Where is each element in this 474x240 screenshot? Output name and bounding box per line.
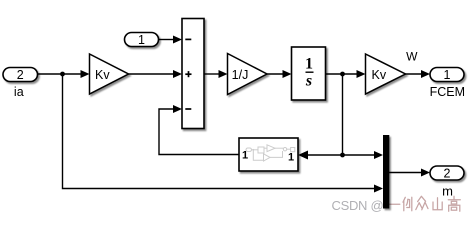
wire: subsystem output left, up, to sum input 3: [159, 109, 239, 155]
wire: 1/J to integrator: [267, 70, 292, 78]
node A junction on ia wire: [60, 72, 65, 77]
svg-text:W: W: [406, 50, 418, 64]
svg-text:CSDN @: CSDN @: [332, 198, 384, 213]
svg-text:s: s: [305, 73, 312, 90]
node C junction: [340, 153, 345, 158]
subsystem thumbnail contents: [246, 145, 295, 161]
outport 1 (FCEM): [430, 68, 464, 82]
wire: inport 1 to sum input 1: [159, 36, 183, 44]
node B junction at integrator output: [340, 72, 345, 77]
sign - (input 3): [185, 108, 191, 110]
wire: junction down and right to mux input 2: [63, 74, 377, 189]
svg-text:m: m: [442, 184, 453, 199]
svg-text:Kv: Kv: [372, 68, 387, 82]
svg-text:1: 1: [444, 68, 451, 82]
wire: gain Kv to sum input 2: [129, 70, 183, 78]
char yi: [390, 203, 400, 205]
char zhong: [416, 196, 428, 210]
integrator 1/s: [292, 47, 326, 100]
svg-text:1: 1: [138, 33, 145, 47]
sign - (input 1): [185, 38, 191, 40]
outport 2 (m): [430, 166, 464, 180]
svg-text:Kv: Kv: [95, 68, 110, 82]
svg-text:1/J: 1/J: [232, 68, 249, 82]
svg-text:FCEM: FCEM: [430, 85, 465, 99]
svg-text:1: 1: [288, 152, 294, 164]
svg-text:2: 2: [444, 167, 451, 181]
wire: mux output to outport 2: [389, 169, 430, 177]
gain Kv (left): [90, 54, 129, 94]
subsystem (flipped transfer block): [239, 138, 298, 171]
svg-text:2: 2: [17, 68, 24, 82]
char shan: [433, 198, 442, 210]
wire: junction B down to node C: [342, 74, 344, 155]
wire: ia port to gain Kv: [37, 70, 90, 78]
wire: node C right to mux input 1: [343, 151, 384, 159]
wire: sum to gain 1/J: [204, 70, 228, 78]
sum block U1: [182, 19, 204, 129]
watermark chinese glyphs (hand drawn): [390, 196, 461, 211]
wire: integrator to gain Kv (right): [326, 70, 366, 78]
mux M1: [383, 135, 389, 209]
inport 1 (top): [125, 33, 159, 47]
char gao: [448, 196, 460, 211]
wire: node C left into subsystem (flipped input): [298, 151, 343, 160]
char yang: [403, 197, 412, 211]
gain Kv (right): [366, 54, 406, 94]
wire: gain Kv right to outport 1: [406, 70, 431, 78]
gain 1/J: [228, 54, 268, 95]
svg-text:1: 1: [305, 56, 313, 73]
inport 2 (ia): [3, 68, 38, 82]
svg-text:ia: ia: [14, 85, 24, 99]
sign + (input 2): [185, 71, 191, 77]
